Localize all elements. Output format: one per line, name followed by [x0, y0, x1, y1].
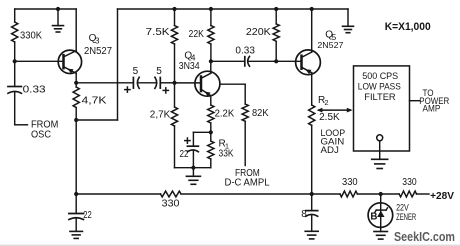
svg-text:330: 330: [162, 199, 180, 210]
wire 220K to node I: [275, 41, 277, 61]
wire second 5 cap to node E: [160, 82, 174, 84]
label K=X1,000: [385, 21, 431, 33]
transistor Q3 2N527: [58, 50, 81, 73]
label +28V: [430, 191, 454, 202]
node H ground line junction: [191, 166, 195, 170]
zener diode B 22V in circle: [368, 203, 393, 228]
wire 330K to node A: [14, 42, 16, 61]
wire filter output stub: [410, 100, 421, 102]
wire Q4 emitter to 2.2K: [210, 96, 212, 105]
resistor 330 bottom-left: [161, 191, 182, 209]
ground G5 mid: [186, 168, 200, 185]
resistor 2.2K: [208, 105, 235, 123]
svg-text:33K: 33K: [219, 148, 234, 159]
transistor Q5 2N527: [296, 50, 321, 75]
svg-text:330: 330: [342, 177, 358, 188]
resistor 82K: [242, 104, 269, 121]
node D bottom-left rail junction: [74, 192, 78, 196]
ground G7 below 8 cap: [305, 215, 318, 239]
svg-text:3N34: 3N34: [179, 61, 200, 72]
wire node C elbow to mid rail riser: [76, 9, 117, 120]
capacitor 22 bottom-left: [69, 194, 92, 221]
svg-text:AMP: AMP: [423, 104, 441, 114]
wire top-left ground rail: [15, 8, 76, 10]
node B Q3 emitter junction: [74, 81, 78, 85]
capacitor 0.33 input: [8, 85, 46, 96]
photo bottom edge: [0, 244, 460, 246]
label Q3: [89, 33, 100, 45]
svg-text:22K: 22K: [189, 29, 205, 40]
capacitor 0.33 interstage: [235, 46, 255, 66]
svg-text:K=X1,000: K=X1,000: [385, 21, 431, 33]
ground G1 top-left: [53, 9, 64, 32]
wire bottom rail middle: [181, 193, 340, 195]
node K zener tap: [379, 192, 383, 196]
wire mid ground rail: [118, 8, 349, 10]
transistor Q4 3N34: [195, 71, 220, 96]
svg-text:22V: 22V: [396, 202, 409, 212]
svg-text:2.2K: 2.2K: [215, 109, 235, 120]
svg-text:+28V: +28V: [430, 191, 454, 202]
node C below 4.7K: [74, 118, 78, 122]
wire node F to 0.33 cap: [211, 60, 245, 62]
svg-text:D-C AMPL: D-C AMPL: [225, 177, 270, 188]
label 500 CPS: [362, 71, 398, 81]
label 33K for R1: [219, 148, 234, 159]
wire Q4 collector to node F: [210, 61, 212, 73]
label LOOP GAIN ADJ: [321, 128, 346, 155]
resistor 330 supply-left: [340, 177, 358, 197]
wire R2 to bottom rail: [311, 125, 313, 194]
wire 0.33 cap to FROM OSC stub: [15, 92, 28, 125]
ground G3 filter box: [372, 141, 388, 169]
svg-text:0.33: 0.33: [235, 46, 255, 57]
capacitor 8 bypass: [301, 194, 317, 220]
node A Q3 base node: [13, 59, 17, 63]
wire to +28V: [417, 193, 430, 195]
resistor 330 supply-right: [399, 177, 417, 197]
wire between 330 resistors: [357, 193, 399, 195]
label R2: [318, 95, 329, 107]
node I Q5 base node: [274, 59, 278, 63]
svg-text:FILTER: FILTER: [364, 92, 396, 102]
resistor 22K: [189, 9, 215, 44]
label FROM OSC: [31, 119, 58, 140]
svg-text:0.33: 0.33: [23, 85, 47, 96]
svg-text:2N527: 2N527: [84, 46, 112, 57]
wire left rail drop to R 330K: [14, 9, 16, 22]
node J bottom rail / Q5 emitter: [310, 192, 314, 196]
wire 22K to node F: [210, 44, 212, 61]
wire node K to zener: [380, 194, 382, 203]
wire between 5 caps: [138, 82, 157, 84]
wire node A to C 0.33 input cap: [14, 61, 16, 86]
wire 7.5K to node E: [174, 44, 176, 83]
capacitor 5 second coupling: [155, 66, 169, 93]
resistor R1 33K: [208, 132, 214, 159]
junction rail / 220K: [274, 7, 278, 11]
junction top-left rail / ground: [56, 7, 60, 11]
svg-text:4,7K: 4,7K: [82, 95, 107, 106]
node G R1 top node: [209, 130, 213, 134]
label Q4: [184, 51, 195, 63]
wire 2.7K to ground line: [175, 126, 194, 168]
junction rail / Q5 collector: [310, 7, 314, 11]
label 2N527 for Q5: [317, 41, 343, 50]
capacitor 22 emitter bypass: [180, 132, 211, 167]
resistor 4.7K: [73, 83, 107, 108]
svg-text:LOW PASS: LOW PASS: [358, 81, 401, 91]
ground G6 below 22 cap: [70, 218, 83, 238]
wire node B to coupling caps: [76, 82, 133, 84]
resistor 220K: [246, 9, 279, 41]
label TO POWER AMP: [419, 88, 449, 114]
svg-text:2,7K: 2,7K: [150, 109, 171, 120]
box 500 CPS low pass filter: [354, 66, 410, 151]
wire 4.7K to node C: [75, 108, 77, 121]
wire R1 to ground line: [193, 159, 210, 168]
svg-text:5: 5: [133, 66, 139, 77]
label Q5: [325, 30, 336, 42]
svg-text:500 CPS: 500 CPS: [362, 71, 398, 81]
wire Q5 collector to top rail: [311, 9, 313, 52]
wire bottom rail left: [76, 193, 160, 195]
wire node I to Q5 base: [276, 60, 301, 62]
svg-text:5: 5: [156, 66, 162, 77]
watermark SeekIC.com: [394, 230, 455, 244]
svg-text:2.5K: 2.5K: [319, 112, 340, 123]
svg-text:22: 22: [180, 149, 189, 160]
svg-text:ZENER: ZENER: [396, 212, 416, 222]
label LOW PASS: [358, 81, 401, 91]
label B in zener circle: [370, 212, 377, 223]
ground G2 top-right: [343, 9, 354, 33]
wire Q3 emitter to node B: [75, 73, 77, 83]
svg-text:82K: 82K: [252, 108, 269, 119]
ground G4 below zener: [374, 227, 388, 239]
wire 0.33 cap to node I: [248, 60, 276, 62]
svg-text:220K: 220K: [246, 27, 271, 38]
junction rail / 22K: [209, 7, 213, 11]
junction rail / 7.5K: [172, 7, 176, 11]
node F Q4 collector node: [209, 59, 213, 63]
label 2N527 for Q3: [84, 46, 112, 57]
svg-text:SeekIC.com: SeekIC.com: [394, 230, 455, 244]
label FILTER: [364, 92, 396, 102]
wire R2 wiper arrow to filter box: [317, 108, 353, 113]
svg-text:ADJ: ADJ: [321, 145, 339, 155]
label 2.5K for R2: [319, 112, 340, 123]
label R1: [219, 138, 230, 150]
svg-text:OSC: OSC: [31, 129, 51, 140]
svg-text:2: 2: [324, 98, 328, 107]
label 3N34 for Q4: [179, 61, 200, 72]
capacitor 5 first coupling: [125, 66, 139, 92]
wire 82K to FROM D-C AMPL: [244, 121, 246, 165]
svg-text:22: 22: [83, 210, 92, 221]
wire Q4 base-two lead to 82K: [220, 84, 245, 104]
wire node A to Q3 base: [15, 60, 64, 62]
resistor 330K: [12, 22, 43, 42]
wire 2.2K to node G: [210, 123, 212, 132]
wire node C down to node D: [75, 120, 77, 194]
label FROM D-C AMPL: [225, 168, 270, 188]
resistor 2.7K: [150, 83, 178, 126]
resistor 7.5K: [146, 9, 178, 44]
svg-text:330K: 330K: [20, 31, 42, 42]
wire Q5 emitter to R2: [311, 73, 313, 105]
svg-text:2N527: 2N527: [317, 41, 343, 50]
terminal circle of filter box: [377, 135, 383, 141]
svg-text:7.5K: 7.5K: [146, 27, 170, 38]
svg-text:330: 330: [402, 177, 417, 188]
node E Q4 base node: [172, 81, 176, 85]
svg-text:3: 3: [95, 35, 100, 45]
svg-text:8: 8: [301, 209, 307, 220]
potentiometer R2 2.5K: [309, 105, 315, 125]
label 22V ZENER: [396, 202, 416, 222]
wire Q3 collector to top rail: [75, 9, 77, 51]
svg-text:B: B: [370, 212, 377, 223]
wire node E to Q4 base: [175, 82, 202, 84]
